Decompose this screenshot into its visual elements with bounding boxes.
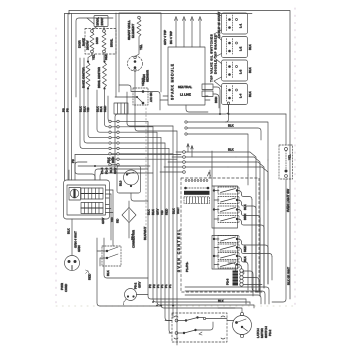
- micro connector ticks: [118, 103, 125, 114]
- wire connector left riser a: [187, 145, 189, 152]
- switch 1 contact dot a: [228, 18, 231, 21]
- connector terminal left top: [175, 319, 178, 322]
- svg-text:P1-5: P1-5: [100, 167, 104, 174]
- fan contacts: [126, 173, 128, 175]
- svg-text:BLK: BLK: [228, 124, 234, 128]
- switch 3 contact dot a: [228, 65, 231, 68]
- relay K1: [213, 187, 252, 200]
- wire chamfer into TB1: [87, 18, 94, 24]
- svg-text:BR0IL: BR0IL: [110, 38, 114, 47]
- junction on center horizontal: [94, 165, 96, 167]
- wire connector to motor a: [227, 320, 234, 322]
- wires bottom-left risers: [97, 238, 161, 306]
- wire module bottom nested: [205, 96, 210, 100]
- svg-text:P1-9: P1-9: [105, 167, 109, 174]
- wire neutral top bus: [65, 13, 253, 15]
- junction dots on bottom bus: [160, 305, 162, 307]
- bottom bus nested corner ends: [246, 299, 254, 308]
- buzzer core hatched bar: [233, 271, 239, 286]
- svg-text:GRY: GRY: [101, 218, 105, 224]
- svg-text:P2-6: P2-6: [226, 278, 230, 285]
- junction dots on bottom bus extra: [152, 301, 154, 303]
- buzzer winding loops: [240, 269, 243, 286]
- connector arrow mark: [199, 332, 202, 335]
- resistor bake element: [90, 32, 94, 50]
- oven light switch contact: [285, 170, 288, 173]
- junction neutral to return line: [219, 113, 221, 115]
- svg-text:BLK/WHT: BLK/WHT: [143, 226, 147, 240]
- connector L1 tab: [202, 91, 213, 97]
- wire bundle lead c (bake ignitor): [88, 90, 108, 138]
- wire connector left riser b: [191, 147, 193, 157]
- wire right riser b: [256, 209, 262, 292]
- clock motor face: [70, 189, 79, 198]
- center bus vertical 1: [148, 121, 246, 299]
- switch 4 contact dot a: [228, 89, 231, 92]
- svg-text:3400: 3400: [95, 37, 99, 44]
- vent switch dashed box: [133, 88, 148, 105]
- plug prong right: [74, 260, 77, 263]
- clock motor box: [69, 188, 81, 201]
- svg-text:L-3: L-3: [239, 69, 243, 74]
- door latch diamond symbol: [122, 208, 136, 223]
- switch 2 contact dot a: [228, 42, 231, 45]
- svg-text:YEL: YEL: [92, 54, 96, 60]
- svg-text:GRY: GRY: [113, 168, 117, 174]
- transformer lower ticks: [187, 197, 208, 204]
- arrow ignitor 3: [191, 17, 194, 21]
- svg-text:RED: RED: [104, 53, 108, 60]
- center bus vertical 8: [176, 131, 178, 345]
- wire buzzer outs: [243, 271, 262, 296]
- svg-text:VI0: VI0: [110, 217, 114, 222]
- center bus vertical 5: [165, 143, 172, 321]
- svg-text:P9: P9: [71, 159, 75, 163]
- wire bundle lead d: [97, 90, 108, 132]
- connector neutral tab: [202, 84, 213, 90]
- svg-text:BRN: BRN: [243, 214, 247, 220]
- wire left bus outer: [64, 14, 66, 181]
- vent switch contact top: [142, 90, 145, 93]
- svg-text:L-1: L-1: [239, 23, 243, 28]
- relay K3: [213, 206, 260, 219]
- door lock switch cluster dashed box: [102, 246, 121, 266]
- wire connector J2 row links: [111, 121, 117, 164]
- resistor bake ignitor: [86, 63, 90, 88]
- terminal probe bottom: [134, 69, 136, 71]
- arrow connector riser a: [187, 144, 189, 148]
- wire connector feeds left: [165, 321, 172, 334]
- arrow ignitor 2: [183, 17, 186, 21]
- node top-left corner junction: [68, 13, 70, 15]
- svg-text:RED: RED: [103, 105, 107, 112]
- relay K4: [214, 216, 264, 229]
- valve switch box 1: [222, 13, 248, 34]
- wire control rail top: [211, 151, 213, 186]
- wire buzzer feed top: [228, 263, 236, 271]
- svg-text:VI0: VI0: [160, 210, 164, 215]
- svg-text:GRY: GRY: [138, 282, 142, 288]
- arrow into control: [208, 172, 211, 176]
- clock inner frame: [67, 185, 106, 215]
- motor contact center: [241, 326, 243, 328]
- relay bank 2 outline: [212, 236, 238, 270]
- connector wire top row: [178, 318, 227, 321]
- svg-text:P8: P8: [66, 108, 70, 112]
- wire cascade link 3-4: [214, 77, 222, 87]
- wire switch4 bottom to run: [226, 105, 229, 123]
- connector contact dot 1: [185, 319, 187, 321]
- nested return wires lower right: [185, 287, 269, 304]
- wire feeds to lock switch: [97, 251, 106, 266]
- svg-text:C0RD: C0RD: [64, 283, 68, 292]
- wire jog b: [236, 157, 260, 296]
- latch diamond stem top: [128, 201, 130, 208]
- valve switch box 3: [222, 60, 248, 81]
- wire jog a: [232, 152, 256, 292]
- motor terminal top: [240, 312, 243, 315]
- svg-text:BLK: BLK: [151, 209, 155, 215]
- cooling fan box: [117, 166, 141, 193]
- svg-text:2WAY: 2WAY: [100, 17, 104, 25]
- oven light switch blade: [285, 151, 287, 170]
- plug prong left: [68, 260, 71, 263]
- wire vent switch out: [144, 92, 160, 111]
- svg-text:VENT: VENT: [141, 78, 145, 86]
- switch 4 terminal: [236, 89, 238, 91]
- valve switch box 4: [222, 84, 248, 105]
- valve switch box 2: [222, 37, 248, 58]
- svg-text:BLK: BLK: [147, 209, 151, 215]
- center bus vertical 7: [172, 126, 174, 318]
- svg-text:RED: RED: [88, 273, 92, 280]
- svg-text:0VEN C0NTR0L: 0VEN C0NTR0L: [177, 228, 181, 272]
- wire vent switch feed top: [119, 85, 142, 92]
- wire control connector outs: [185, 152, 240, 167]
- wire ignitor lead 3: [191, 19, 193, 47]
- wire bundle lead a: [80, 58, 108, 148]
- spark module box: [168, 47, 205, 105]
- door lock switch contact a: [106, 250, 108, 252]
- wire L1 top bus: [69, 11, 290, 300]
- svg-text:GRY: GRY: [156, 209, 160, 215]
- wire right riser a: [252, 200, 258, 292]
- wire switch1 feed from top bus: [216, 14, 222, 17]
- broil element dashed enclosure: [85, 29, 116, 55]
- wire ignitor lead 1: [175, 19, 177, 47]
- switch 3 terminal: [236, 66, 238, 68]
- wire vent switch feed mid: [115, 96, 136, 98]
- wire control connector feeds: [160, 152, 183, 172]
- wire bundle lead b: [84, 58, 108, 143]
- connector corner curl c: [174, 338, 178, 339]
- wire jog c: [240, 162, 264, 288]
- switch 2 internals dashed: [227, 39, 233, 55]
- junction probe center: [134, 60, 137, 63]
- bottom connector dashed box: [172, 313, 227, 342]
- svg-text:BL0: BL0: [119, 180, 123, 186]
- svg-text:BLK: BLK: [172, 208, 176, 214]
- junction probe lower: [134, 66, 137, 69]
- switch 3 internals dashed: [227, 62, 233, 78]
- switch 4 contact dot b: [228, 97, 231, 100]
- relay bank 1 outline: [212, 186, 238, 228]
- junction bake ignitor top: [87, 60, 89, 62]
- connector wire bottom row: [178, 322, 213, 333]
- switch 1 terminal: [236, 19, 238, 21]
- wire grill lead down: [127, 92, 173, 126]
- svg-text:BLK: BLK: [248, 91, 252, 97]
- svg-text:GRN: GRN: [77, 245, 81, 252]
- wire right riser f: [271, 257, 273, 281]
- door lock switch blade a: [107, 247, 118, 251]
- perforation dotted border right: [294, 8, 296, 306]
- wire sensor lead down: [135, 92, 177, 131]
- control transformer winding bar: [184, 191, 210, 195]
- svg-text:BR0IL IGNIT0R: BR0IL IGNIT0R: [97, 66, 101, 88]
- svg-text:BLK: BLK: [107, 157, 111, 163]
- switch 1 internals dashed: [227, 15, 233, 31]
- center bus vertical 3: [157, 132, 254, 305]
- wire into control top a: [209, 170, 211, 178]
- door lock switch contact b: [106, 257, 108, 259]
- oven light switch terminal top: [285, 148, 288, 151]
- wire right riser d: [263, 228, 265, 288]
- wire clock to power cord: [71, 219, 73, 255]
- svg-text:C0NNECT0R: C0NNECT0R: [132, 229, 136, 248]
- svg-text:WHT: WHT: [176, 207, 180, 214]
- wire riser b path: [104, 238, 148, 278]
- door lock switch blade b: [107, 254, 118, 258]
- perforation dotted border left: [55, 28, 57, 306]
- svg-text:BLK: BLK: [243, 204, 247, 210]
- control header dashed row with end dots: [186, 187, 208, 189]
- svg-text:SPARK M0DULE: SPARK M0DULE: [171, 63, 175, 100]
- switch 2 contact dot b: [228, 50, 231, 53]
- resistor grill element: [137, 19, 141, 36]
- svg-text:YEL: YEL: [288, 154, 292, 160]
- switch 3 contact dot b: [228, 73, 231, 76]
- svg-text:BAKE IGNIT0R: BAKE IGNIT0R: [82, 66, 86, 88]
- dashed route wire: [145, 108, 147, 232]
- arrow ignitor 4: [199, 17, 202, 21]
- wire probe down: [134, 71, 136, 92]
- svg-text:BLK: BLK: [218, 299, 224, 303]
- connector contact dot 4: [194, 329, 196, 331]
- wire clock feeds from top a: [68, 170, 70, 180]
- svg-text:BRN: BRN: [111, 157, 115, 163]
- svg-text:L1 LINE: L1 LINE: [180, 93, 191, 97]
- wire L1 drop at corner: [68, 11, 70, 14]
- wire long run y133 with corner down: [187, 134, 248, 175]
- wire switch cascade return to latch area: [115, 105, 229, 169]
- connector contact dot 3: [183, 332, 185, 334]
- oven door switch circle (bottom): [125, 289, 137, 301]
- arrow small at left bottom: [86, 270, 90, 274]
- wire center horizontal left drop: [75, 155, 95, 181]
- relay K6: [214, 244, 272, 257]
- vent switch pole: [136, 96, 138, 98]
- wire clock exit riser: [111, 190, 113, 246]
- relay K5: [213, 236, 268, 249]
- svg-text:GRY 4 T0P: GRY 4 T0P: [163, 30, 167, 45]
- svg-text:BLK: BLK: [67, 228, 71, 234]
- wire fan box exit: [131, 193, 148, 201]
- terminal block TB1 (top small box): [94, 16, 108, 27]
- terminal (broil element bottom): [103, 50, 106, 53]
- wire TB1 to element terminals: [92, 27, 104, 31]
- motor contact left: [235, 321, 238, 324]
- arrow connector riser b: [191, 146, 193, 150]
- clock pin header upper: [81, 188, 103, 199]
- svg-text:BLK: BLK: [106, 270, 110, 276]
- resistor broil ignitor: [103, 63, 107, 88]
- latch diamond center line: [128, 210, 130, 221]
- resistor broil element: [102, 32, 106, 50]
- svg-text:P2-2: P2-2: [268, 329, 272, 336]
- wire right vertical from y133: [247, 175, 249, 290]
- switch 1 contact dot b: [228, 26, 231, 29]
- svg-text:VI0: VI0: [86, 107, 90, 112]
- vent switch contact bottom: [142, 102, 145, 105]
- wire connector J2 exits right: [119, 121, 177, 159]
- relay K2: [214, 197, 256, 210]
- terminal (bake element top left): [91, 30, 94, 33]
- svg-text:BRN: BRN: [214, 97, 218, 103]
- plug ground slot: [71, 266, 73, 270]
- wire left bus third: [71, 14, 73, 181]
- svg-text:YEL: YEL: [139, 44, 143, 50]
- wire grill element down: [136, 37, 139, 56]
- junction bake ignitor bottom: [87, 87, 89, 89]
- wire right riser e: [267, 248, 269, 284]
- wire module L1 line out: [213, 94, 219, 108]
- svg-text:L-4: L-4: [239, 93, 243, 98]
- relay K7: [213, 253, 248, 266]
- power cord plug circle: [65, 256, 80, 271]
- svg-text:BLK: BLK: [243, 256, 247, 262]
- clock motor core bar: [73, 189, 75, 198]
- svg-text:BLK: BLK: [248, 67, 252, 73]
- connector terminal left bottom: [175, 332, 178, 335]
- svg-text:RED: RED: [165, 208, 169, 215]
- wire long run y122 with corner down: [187, 122, 268, 160]
- connector J2 grid circles column 2: [117, 120, 119, 166]
- svg-text:BLK 0R WHT: BLK 0R WHT: [287, 267, 291, 285]
- wire oven shell box 2 (grill compartment): [119, 13, 161, 92]
- svg-text:D0UBLE T0P SHARED: D0UBLE T0P SHARED: [214, 34, 218, 74]
- wire module nested corner: [186, 105, 208, 112]
- wire right vertical from y122: [267, 160, 269, 200]
- connector J2 grid circles column 1: [109, 120, 111, 166]
- switch 4 internals dashed: [227, 86, 233, 102]
- terminal (bake element bottom): [91, 50, 94, 53]
- wire bundle lead e (broil ignitor): [105, 90, 109, 127]
- svg-text:NEUTRAL: NEUTRAL: [178, 85, 192, 89]
- center bus vertical 4: [161, 138, 235, 308]
- control connector circles left: [183, 151, 186, 174]
- wire motor top feed: [218, 308, 242, 312]
- svg-text:BLK: BLK: [228, 148, 234, 152]
- svg-text:SENS0R: SENS0R: [146, 69, 150, 82]
- terminal switch4 bottom: [227, 102, 229, 104]
- svg-text:BR0IL: BR0IL: [96, 17, 100, 26]
- connector blade bottom: [184, 330, 196, 333]
- perforation dotted border bottom: [56, 305, 295, 307]
- terminal grill element top: [138, 16, 141, 19]
- wire module bottom runs: [160, 96, 168, 100]
- svg-text:0VEN LIGHT SW: 0VEN LIGHT SW: [286, 189, 290, 212]
- connector terminal mid: [203, 317, 205, 319]
- latch diamond stem bottom: [128, 223, 130, 239]
- wire light switch out: [272, 179, 286, 302]
- oven control dashed enclosure: [181, 178, 259, 292]
- svg-text:2600W: 2600W: [86, 40, 90, 50]
- wire clock feed d: [100, 173, 153, 180]
- wire bundle lead f: [108, 96, 111, 121]
- connector blade top: [186, 318, 198, 321]
- wire bake elem to ignitor: [88, 53, 92, 60]
- door lock motor circle: [233, 316, 252, 335]
- wire ignitor lead 4: [199, 19, 201, 47]
- wire cascade link 2-3: [214, 54, 222, 64]
- cooling fan circle: [124, 170, 139, 185]
- svg-text:P1-/P2-: P1-/P2-: [185, 262, 189, 272]
- connector corner curl a: [174, 316, 178, 317]
- svg-text:RED: RED: [243, 245, 247, 252]
- vent switch blade: [137, 97, 143, 103]
- clock pin header lower: [81, 203, 103, 214]
- svg-text:ELEMENT: ELEMENT: [131, 24, 135, 38]
- center bus vertical 2: [153, 127, 250, 302]
- relay K8: [214, 261, 244, 274]
- terminal probe top: [134, 56, 136, 58]
- wire light switch feed: [229, 113, 287, 115]
- wire cascade link 1-2: [214, 30, 222, 40]
- center bus vertical 6: [169, 148, 172, 333]
- junction broil ignitor bottom: [103, 87, 105, 89]
- connector corner curl d: [221, 338, 225, 339]
- motor terminal bottom: [240, 334, 243, 337]
- svg-text:BU 4 T0P: BU 4 T0P: [169, 31, 173, 44]
- wire jog d: [228, 167, 268, 284]
- motor wiper: [237, 319, 248, 331]
- control transformer pin row: [185, 180, 208, 182]
- wire left bus inner: [67, 14, 69, 181]
- connector contact dot 2: [196, 316, 198, 318]
- wire module neutral feed: [213, 87, 220, 114]
- wire clock feeds from top b: [75, 162, 87, 180]
- wire ignitor lead 2: [183, 19, 185, 47]
- clock assembly rounded box: [64, 180, 110, 219]
- svg-text:L-2: L-2: [239, 46, 243, 51]
- oven door switch contacts: [127, 295, 129, 297]
- connector corner curl b: [221, 316, 225, 317]
- meat probe dashed circle: [128, 56, 143, 71]
- svg-text:A/C 0R: A/C 0R: [149, 91, 153, 102]
- wire long center horizontal a: [75, 154, 181, 156]
- svg-text:BLK: BLK: [248, 44, 252, 50]
- relay feed rail: [213, 186, 215, 268]
- terminal (broil element top right): [103, 30, 106, 33]
- control transformer lower dashed block: [184, 197, 210, 204]
- oven light switch dashed box: [279, 145, 293, 179]
- wire oven shell box 1 (bake/broil compartment): [76, 13, 116, 97]
- svg-text:P1: P1: [168, 284, 172, 288]
- switch 2 terminal: [236, 42, 238, 44]
- wire long run y128: [187, 128, 261, 140]
- wire right riser c: [259, 219, 261, 297]
